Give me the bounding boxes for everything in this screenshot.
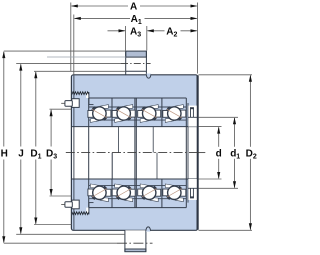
ball pocket U4 <box>163 105 186 123</box>
arrow H top <box>2 51 5 58</box>
central double seam <box>134 98 136 208</box>
dim line A <box>72 5 128 7</box>
grease passage notch upper <box>86 92 89 98</box>
thick right face of body <box>197 75 199 229</box>
grease passage notch lower <box>86 208 89 214</box>
arrow A2 right <box>191 29 198 32</box>
shoulder lines upper row <box>89 106 187 108</box>
ext line H top <box>4 50 126 52</box>
separator lower band 1 <box>111 179 113 208</box>
arrow A2 left <box>147 29 154 32</box>
washer seam left in bore band <box>73 75 75 230</box>
arrow D1 top <box>34 71 37 78</box>
lubrication boss on top <box>126 51 147 75</box>
right washer seam <box>187 103 189 203</box>
ext line d top <box>199 126 222 128</box>
arrow A left <box>71 4 78 7</box>
ext line A right <box>197 3 199 74</box>
arrow A1 left <box>74 17 81 20</box>
ext line D2 bottom <box>199 229 253 231</box>
arrow D1 bottom <box>34 218 37 225</box>
shaft washer sleeve protruding at bottom <box>125 230 146 251</box>
arrow A right <box>191 4 198 7</box>
dim line d1 <box>234 118 236 147</box>
grease hole centerline in boss <box>121 63 151 65</box>
relief notch right of bottom sleeve <box>146 227 151 231</box>
main centerline <box>66 152 197 154</box>
svg-text:d: d <box>216 148 222 159</box>
arrow J top <box>19 64 22 71</box>
arrow A1 right <box>191 17 198 20</box>
ext line J bottom <box>16 233 125 235</box>
dim line A1 <box>75 17 130 19</box>
arrow d top <box>217 127 220 134</box>
ext line d1 bottom <box>199 187 239 189</box>
bore bottom line <box>72 178 198 180</box>
svg-text:J: J <box>18 148 24 159</box>
bore seam lower b <box>156 153 158 179</box>
ball pocket L1 <box>88 184 111 202</box>
separator upper band 2 <box>161 98 163 127</box>
dim line d <box>218 127 220 147</box>
arrow d bottom <box>217 172 220 179</box>
dim line J <box>20 64 22 146</box>
ext line d bottom <box>199 178 222 180</box>
grease plug upper left <box>61 92 93 108</box>
arrow H bottom <box>2 236 5 243</box>
ext line A3 left <box>125 26 127 51</box>
arrow D2 bottom <box>249 223 252 230</box>
arrow d1 bottom <box>233 181 236 188</box>
bore top line <box>72 126 198 128</box>
arrow J bottom <box>19 227 22 234</box>
ball pocket L2 <box>112 184 135 202</box>
right end washer windows <box>188 106 198 200</box>
ext line A1 left <box>73 15 75 75</box>
separator upper band 1 <box>111 98 113 127</box>
raceway band top line upper row <box>89 97 187 99</box>
ball pocket U1 <box>88 105 111 123</box>
ext line J top <box>16 63 121 65</box>
ball pocket U2 <box>112 105 135 123</box>
shoulder lines lower row <box>89 185 187 187</box>
grease plug lower left <box>61 200 93 215</box>
ball pocket U3 <box>138 105 161 123</box>
dim line H <box>3 52 5 147</box>
ext line d1 top <box>199 116 239 118</box>
arrow D3 bottom <box>50 189 53 196</box>
central bore band (shaft washer stack, white) <box>72 127 197 179</box>
ext line D2 top <box>199 74 253 76</box>
arrow D3 top <box>50 109 53 116</box>
svg-text:H: H <box>1 148 8 159</box>
bore band seam 3 <box>152 127 154 153</box>
dim line D2 <box>249 76 251 147</box>
svg-text:A: A <box>130 2 137 13</box>
bore band seam 2 <box>117 127 119 153</box>
relief notch right of boss <box>146 74 151 78</box>
dim line D1 <box>35 72 37 147</box>
arrow d1 top <box>233 117 236 124</box>
ball pocket L4 <box>163 184 186 202</box>
dimension labels <box>1 2 257 161</box>
ext line D3 top surface <box>47 56 126 58</box>
ext line A3 right <box>146 26 148 51</box>
separator lower band 2 <box>161 179 163 208</box>
bore seam lower a <box>111 153 113 179</box>
arrow A3 outside <box>119 29 126 32</box>
chamber left wall <box>88 98 90 208</box>
ext line D3 lower <box>50 195 72 197</box>
ext line D1 top <box>34 70 126 72</box>
arrow D2 top <box>249 75 252 82</box>
dim line A2 <box>148 30 165 32</box>
housing body (blue section) <box>71 75 197 231</box>
ext line D1 bottom <box>34 224 72 226</box>
chamber right wall <box>185 98 187 208</box>
ext line D3 upper <box>50 108 72 110</box>
bearing axis line at bottom <box>4 242 117 244</box>
arrowheads <box>2 4 252 243</box>
raceway band bottom line lower row <box>89 207 187 209</box>
ext line A left <box>70 3 72 72</box>
dim line D3 <box>50 110 52 147</box>
dim line A3 leader <box>108 30 125 32</box>
ball pocket L3 <box>138 184 161 202</box>
